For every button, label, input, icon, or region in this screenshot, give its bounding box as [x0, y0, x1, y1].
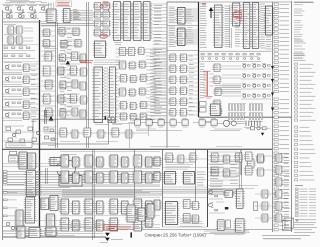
wire mr wires: [153, 4, 167, 45]
wire rt bottom rail: [199, 50, 272, 52]
IC DD72 br right cluster: [244, 152, 283, 222]
node legend block2: [294, 54, 306, 61]
IC DD64 bm gates: [182, 200, 200, 224]
IC DD56 periph box: [59, 176, 82, 187]
bus bl address: [3, 172, 160, 186]
IC DD58 box: [39, 198, 50, 210]
bus main vertical: [39, 20, 41, 231]
wire bl bottom rail2: [3, 234, 103, 236]
IC DD70 br cluster: [210, 153, 265, 177]
IC DD53 mid DIP: [25, 171, 37, 197]
wire frame bottom sheets top: [2, 148, 272, 150]
node mt out labels: [187, 10, 194, 43]
node tl top labels: [6, 1, 29, 3]
node connector table upper: [274, 3, 289, 93]
node osc right bits: [246, 127, 270, 136]
node mid labels2: [67, 29, 72, 119]
IC DD45 right DIP: [264, 6, 274, 35]
node left labels: [31, 66, 37, 121]
node black arrow mid-left: [66, 61, 70, 65]
IC DD66 bl upper array: [59, 155, 161, 183]
node connector table lower: [274, 98, 289, 231]
node rt left labels: [200, 4, 207, 47]
wire band frame: [33, 119, 109, 144]
IC DD69 bl bottom row: [15, 226, 57, 238]
node black bar E: [131, 233, 132, 238]
IC DD22 glue logic: [118, 48, 148, 121]
IC DD49 lower boxes: [200, 102, 222, 116]
node cpu mid labels: [104, 68, 108, 119]
IC DD55 box: [48, 158, 63, 166]
IC DD60: [163, 172, 177, 185]
node red annotation F: [79, 61, 93, 63]
ground bottom symbols: [100, 233, 123, 243]
node rt bottom labels: [205, 121, 263, 123]
wire left border: [2, 10, 4, 240]
wire clock rail: [112, 123, 246, 130]
wire bm vert mid: [195, 150, 197, 206]
node red annotation E: [104, 225, 131, 230]
node mid labels3: [44, 47, 57, 51]
wire rt vert pair: [230, 5, 232, 48]
wire cpu gap wires: [94, 60, 120, 64]
IC DD61: [182, 172, 196, 185]
node br labels2: [230, 162, 239, 184]
wire short vert pair: [45, 110, 47, 124]
node cpu bottom caps: [108, 118, 115, 123]
wire cpu links L: [116, 49, 120, 121]
wire bl verticals: [46, 150, 95, 240]
node red annotation A: [100, 2, 110, 13]
node mt labels col2: [169, 27, 176, 46]
IC DD57 DIP1: [24, 197, 36, 223]
node bl left connectors: [4, 192, 18, 230]
bus rt mid: [215, 86, 241, 92]
IC DD75 tall B: [234, 219, 246, 233]
IC DD8 mid cluster: [42, 52, 88, 118]
IC DD10 cluster: [93, 3, 111, 37]
node red annotation C: [234, 10, 246, 20]
wire left links: [30, 64, 39, 119]
wire bl h-links: [60, 152, 160, 228]
IC DD74 tall A: [235, 189, 245, 208]
node cpu labels R: [150, 50, 157, 123]
node cpu bottom labels: [95, 123, 122, 125]
wire rt nets: [222, 66, 241, 96]
node caption notes: [204, 231, 249, 234]
node legend notes2x: [294, 40, 306, 58]
node clock labels: [136, 129, 242, 147]
node legend bottom notes: [294, 220, 317, 233]
IC DA2 analog band: [2, 126, 41, 143]
IC DD77 small: [253, 202, 257, 211]
node br labels: [210, 162, 224, 190]
transistor VT30 audio: [208, 152, 258, 213]
wire frame right sheet top: [199, 1, 292, 3]
node reg labels d: [151, 3, 153, 39]
node rtl labels: [200, 64, 206, 98]
wire bl h-links2: [3, 164, 60, 231]
node br right labels: [284, 154, 290, 228]
IC DD19 upper: [93, 41, 107, 58]
resistor R25 arrays: [228, 103, 263, 119]
node rt labels col D: [266, 37, 272, 49]
resistor R20 row: [199, 54, 261, 62]
IC DD5 upper cluster: [42, 28, 83, 49]
node bl labels mid: [37, 172, 42, 195]
node reg labels b: [131, 3, 133, 39]
node black arrows right: [271, 66, 274, 111]
node bl mid rows: [62, 190, 150, 196]
node legend table lower: [295, 126, 316, 181]
wire mid links2: [64, 28, 80, 118]
transistor VT2 amps row2: [3, 14, 39, 19]
node bm labels2: [197, 172, 206, 185]
IC DD50 clock chain: [129, 118, 218, 127]
IC DD43 RAM B: [251, 3, 261, 49]
node reg caption: [114, 43, 122, 45]
IC DD52b top DIP B: [26, 153, 37, 169]
node rom labels: [73, 10, 81, 20]
node rt labels col C: [260, 4, 266, 48]
IC DD63 bm DIP: [164, 202, 179, 225]
node black arrow lower-left: [49, 116, 54, 121]
node bm labels3: [180, 219, 204, 226]
node mr labels: [154, 6, 162, 44]
wire frame right col 2: [291, 1, 293, 232]
transistor VT10 grid: [241, 64, 271, 100]
bus bl lower: [3, 189, 162, 195]
bus pair vertical x86: [87, 2, 89, 148]
IC DD14 register bank: [112, 2, 152, 41]
IC DD62 bm top row: [165, 153, 198, 163]
IC DD71 mid box: [223, 191, 234, 198]
wire vert x129: [129, 124, 148, 148]
wire frame bottom-mid right: [207, 150, 209, 227]
wire mid links: [41, 26, 56, 121]
transistor VT5 left analog col: [2, 63, 31, 121]
IC DD30 buffer A: [176, 8, 187, 25]
node rt labels col B: [225, 6, 231, 47]
wire frame caption top: [106, 229, 272, 231]
wire mt out: [186, 9, 199, 44]
node power header red labels: [56, 1, 72, 7]
node mt labels col: [169, 7, 176, 23]
IC DD59 box: [48, 196, 59, 211]
node bl bus caption: [7, 184, 70, 187]
wire frame right col 1: [272, 2, 274, 232]
bus pair vertical x55: [56, 22, 58, 148]
bus tl horiz pair: [41, 24, 93, 26]
node bl bus labels: [3, 171, 7, 184]
IC DD46 highlighted: [204, 73, 207, 96]
wire bl array divider: [134, 150, 136, 229]
wire left col dividers: [2, 23, 39, 111]
node bm labels: [165, 163, 193, 170]
node 3d box sketch: [283, 218, 294, 231]
IC DD2 latch: [62, 9, 72, 23]
wire br divider: [240, 150, 242, 175]
node black arrow top: [209, 7, 213, 18]
IC DD42 RAM A: [242, 3, 252, 49]
wire mr wires2: [153, 48, 167, 116]
node rt labels col B2: [235, 23, 241, 46]
node reg labels a: [121, 3, 123, 39]
wire mt divider: [167, 25, 198, 50]
node red tick corner: [202, 3, 206, 5]
IC DA3 small parts: [42, 127, 56, 146]
IC DD41 ctrl DIP: [231, 3, 242, 26]
wire rom top stubs: [49, 3, 54, 9]
IC DD76 bottom boxes: [216, 220, 230, 231]
wire rom bus: [70, 11, 93, 21]
node reg labels c: [142, 3, 144, 39]
IC DD1 ROM: [45, 9, 57, 23]
node mt lower labels: [189, 56, 195, 115]
IC DD51 band row: [44, 127, 148, 142]
wire br bottom wires: [210, 232, 250, 234]
wire bl bottom rail: [3, 236, 106, 238]
node black mark br: [225, 207, 228, 209]
wire cpu links R: [146, 49, 166, 123]
IC DD52 top DIP A: [17, 152, 28, 169]
IC DD68 bl right lower: [125, 204, 155, 222]
wire br feed: [236, 152, 242, 188]
wire bl bottom wires: [3, 227, 100, 231]
wire frame mid sheet left: [166, 2, 168, 148]
wire frame bottom-mid left: [162, 150, 164, 227]
node bl header box: [9, 151, 19, 162]
wire big arc: [54, 155, 77, 179]
IC DA1 dac group: [4, 24, 33, 44]
IC DD47 mid gates: [213, 64, 223, 116]
ground legend symbol: [295, 219, 299, 221]
IC DD20 CPU: [92, 67, 104, 123]
wire br links: [255, 156, 276, 218]
IC DD65 bl lower: [14, 210, 56, 232]
bus bm: [163, 189, 240, 193]
node black tick: [105, 117, 106, 120]
svg-text:Спекран 2S 256 Turbo+ (1996): Спекран 2S 256 Turbo+ (1996): [145, 232, 207, 237]
node bottom right notes: [262, 236, 310, 239]
IC DD34 mid lower cluster: [169, 54, 188, 116]
node legend top notes: [294, 2, 314, 15]
node caption text: [145, 232, 207, 237]
wire frame right sheet left: [198, 2, 200, 117]
node red annotation D: [204, 71, 215, 98]
transistor VT1 video amps: [3, 3, 49, 13]
transistor VT20 oscillator: [218, 120, 242, 126]
IC DD40 tall DIP A: [213, 5, 224, 48]
IC DD31 buffer B: [176, 28, 187, 46]
wire frame right sheet bottom: [199, 116, 292, 118]
node legend table bottom: [295, 186, 316, 217]
node mid labels: [60, 30, 67, 118]
node legend list: [294, 21, 304, 42]
IC DD21 CPU B: [108, 67, 117, 123]
resistor RP1 pack: [244, 121, 262, 128]
node legend table mid: [295, 63, 316, 121]
node mr labels2: [154, 50, 163, 114]
resistor R10 ladder: [2, 45, 35, 58]
node label box: [6, 143, 32, 148]
node red annotation B: [99, 34, 107, 38]
wire tl rails: [2, 2, 54, 22]
wire bm links: [163, 159, 207, 227]
IC DD67 bl lower array: [59, 199, 161, 231]
wire frame mid sheet top: [167, 1, 199, 3]
wire mt lower: [188, 55, 198, 115]
